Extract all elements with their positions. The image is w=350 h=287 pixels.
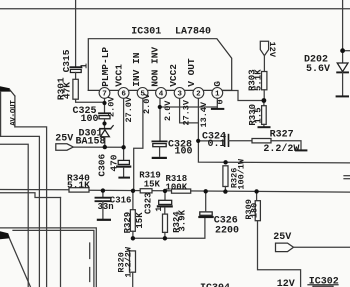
svg-text:470: 470	[109, 154, 120, 171]
wire pin4 NON INV down	[159, 98, 161, 141]
svg-text:100: 100	[175, 147, 193, 158]
svg-text:R329: R329	[123, 212, 133, 234]
diode D301	[100, 126, 113, 148]
resistor R327	[252, 139, 301, 150]
wire 25V rail to VCC1	[73, 146, 123, 148]
supply tag 12V top	[260, 41, 268, 56]
ground bar under C306	[119, 177, 129, 179]
wire pin6 VCC1 down	[123, 98, 125, 160]
supply tag 25V left	[56, 144, 73, 150]
capacitor C328	[152, 141, 166, 156]
capacitor C315	[70, 67, 81, 79]
wire rail left segment B	[0, 193, 61, 198]
rotated voltage labels	[106, 93, 225, 128]
ground bar under D202	[337, 95, 348, 97]
svg-text:C323: C323	[144, 192, 154, 214]
svg-text:VCC1: VCC1	[113, 64, 124, 87]
svg-text:IC302: IC302	[309, 276, 339, 287]
svg-text:PLMP-LP: PLMP-LP	[100, 47, 111, 87]
wire pin5 INV IN path	[134, 98, 143, 191]
rotated labels (CCW)	[55, 49, 119, 176]
supply tag 25V bottom	[276, 243, 294, 252]
svg-text:3.9K: 3.9K	[177, 209, 187, 231]
svg-text:IC304: IC304	[200, 283, 230, 287]
svg-text:12V: 12V	[267, 42, 277, 58]
svg-text:100/1W: 100/1W	[237, 158, 247, 190]
svg-text:1: 1	[215, 91, 220, 99]
resistor R309	[255, 191, 300, 287]
wire AV-OUT exits	[15, 127, 47, 287]
wire node line under R329/R324 to C326	[133, 218, 205, 238]
svg-text:1: 1	[155, 207, 164, 212]
capacitor C324	[198, 135, 252, 147]
ground bar under R327 lead	[296, 149, 306, 151]
capacitor C306	[117, 160, 130, 176]
op-amp IC301 box outline	[88, 39, 231, 91]
resistor R303	[262, 72, 267, 101]
resistor R319	[140, 189, 152, 193]
resistor R320	[130, 251, 136, 287]
svg-text:5.6V: 5.6V	[306, 64, 330, 75]
wire pin3 VCC2 to pin2 net	[180, 98, 199, 123]
svg-text:1.5: 1.5	[254, 107, 264, 123]
svg-text:13.4V: 13.4V	[199, 101, 209, 127]
ground bar under R330	[259, 126, 270, 128]
wire top horizontal rail	[0, 8, 350, 10]
wire vertical from top to C315	[75, 0, 77, 67]
svg-text:G: G	[212, 81, 223, 87]
svg-text:2.0V: 2.0V	[106, 96, 116, 117]
svg-text:2.0V: 2.0V	[142, 93, 152, 114]
svg-text:3: 3	[177, 91, 182, 99]
pin numbers	[102, 91, 220, 99]
svg-text:2: 2	[196, 91, 201, 99]
wire pin2 V OUT down	[198, 98, 350, 163]
svg-text:AV-OUT: AV-OUT	[10, 100, 18, 126]
svg-text:25V: 25V	[273, 232, 291, 243]
ground bar under C316	[98, 219, 110, 221]
resistor R329	[130, 191, 135, 239]
svg-text:2.2/2W: 2.2/2W	[263, 143, 299, 155]
wire rail left segment A	[0, 189, 69, 191]
svg-text:25V: 25V	[55, 133, 73, 144]
svg-text:5.1K: 5.1K	[254, 69, 264, 91]
svg-text:5.1K: 5.1K	[67, 180, 90, 191]
svg-text:INV IN: INV IN	[131, 52, 142, 87]
capacitor C325	[99, 113, 110, 128]
svg-text:V OUT: V OUT	[186, 58, 197, 87]
wire pin4 node to pin1 gnd stub	[160, 106, 217, 108]
svg-text:LA7840: LA7840	[175, 27, 211, 38]
ground bar pin1	[212, 108, 223, 110]
svg-text:VCC2: VCC2	[168, 64, 179, 87]
IC302 box top	[308, 284, 338, 286]
svg-text:R327: R327	[270, 130, 294, 141]
wire pin1 to R303 node	[223, 91, 264, 101]
capacitor C316	[96, 191, 111, 219]
connector AV-OUT box	[0, 86, 15, 136]
rotated pin name labels	[100, 47, 223, 87]
svg-text:C315: C315	[61, 49, 72, 72]
svg-text:4: 4	[159, 91, 164, 99]
svg-text:12V: 12V	[277, 279, 295, 287]
svg-text:100K: 100K	[166, 183, 188, 193]
svg-text:2.0V: 2.0V	[163, 100, 173, 121]
svg-text:33n: 33n	[98, 202, 114, 212]
rotated CW labels	[267, 42, 277, 58]
wire pin1 gnd stub	[216, 98, 218, 108]
resistor R330	[262, 101, 267, 127]
capacitor C326	[199, 191, 212, 217]
svg-text:15K: 15K	[144, 179, 161, 189]
pin circles	[99, 88, 223, 99]
svg-text:100: 100	[81, 114, 99, 125]
svg-text:NON INV: NON INV	[149, 47, 160, 87]
wire pin7 stub down to node	[104, 98, 106, 113]
svg-text:2200: 2200	[215, 225, 239, 236]
svg-text:27.3V: 27.3V	[181, 99, 191, 125]
resistor R340	[69, 188, 89, 192]
resistor R324	[163, 214, 168, 238]
zener D202	[337, 0, 350, 95]
svg-text:0.1: 0.1	[208, 139, 226, 150]
connector bottom box	[0, 228, 96, 287]
svg-text:180: 180	[249, 203, 259, 218]
right edge stubs	[344, 175, 350, 177]
horizontal labels	[55, 27, 339, 287]
svg-text:47K: 47K	[62, 82, 73, 99]
resistor R318	[172, 189, 191, 193]
svg-text:C306: C306	[96, 153, 107, 176]
svg-text:1.2/2W: 1.2/2W	[124, 246, 134, 278]
svg-text:IC301: IC301	[131, 27, 161, 38]
capacitor C323	[158, 191, 172, 214]
svg-text:27.0V: 27.0V	[124, 96, 134, 122]
resistor R301	[73, 79, 105, 102]
svg-text:1: 1	[79, 63, 90, 69]
resistor R326	[223, 166, 228, 192]
svg-text:0: 0	[216, 99, 226, 104]
svg-text:BA158: BA158	[76, 136, 106, 147]
wire long feedback rail	[89, 190, 350, 192]
ground bar under C328	[153, 157, 166, 159]
